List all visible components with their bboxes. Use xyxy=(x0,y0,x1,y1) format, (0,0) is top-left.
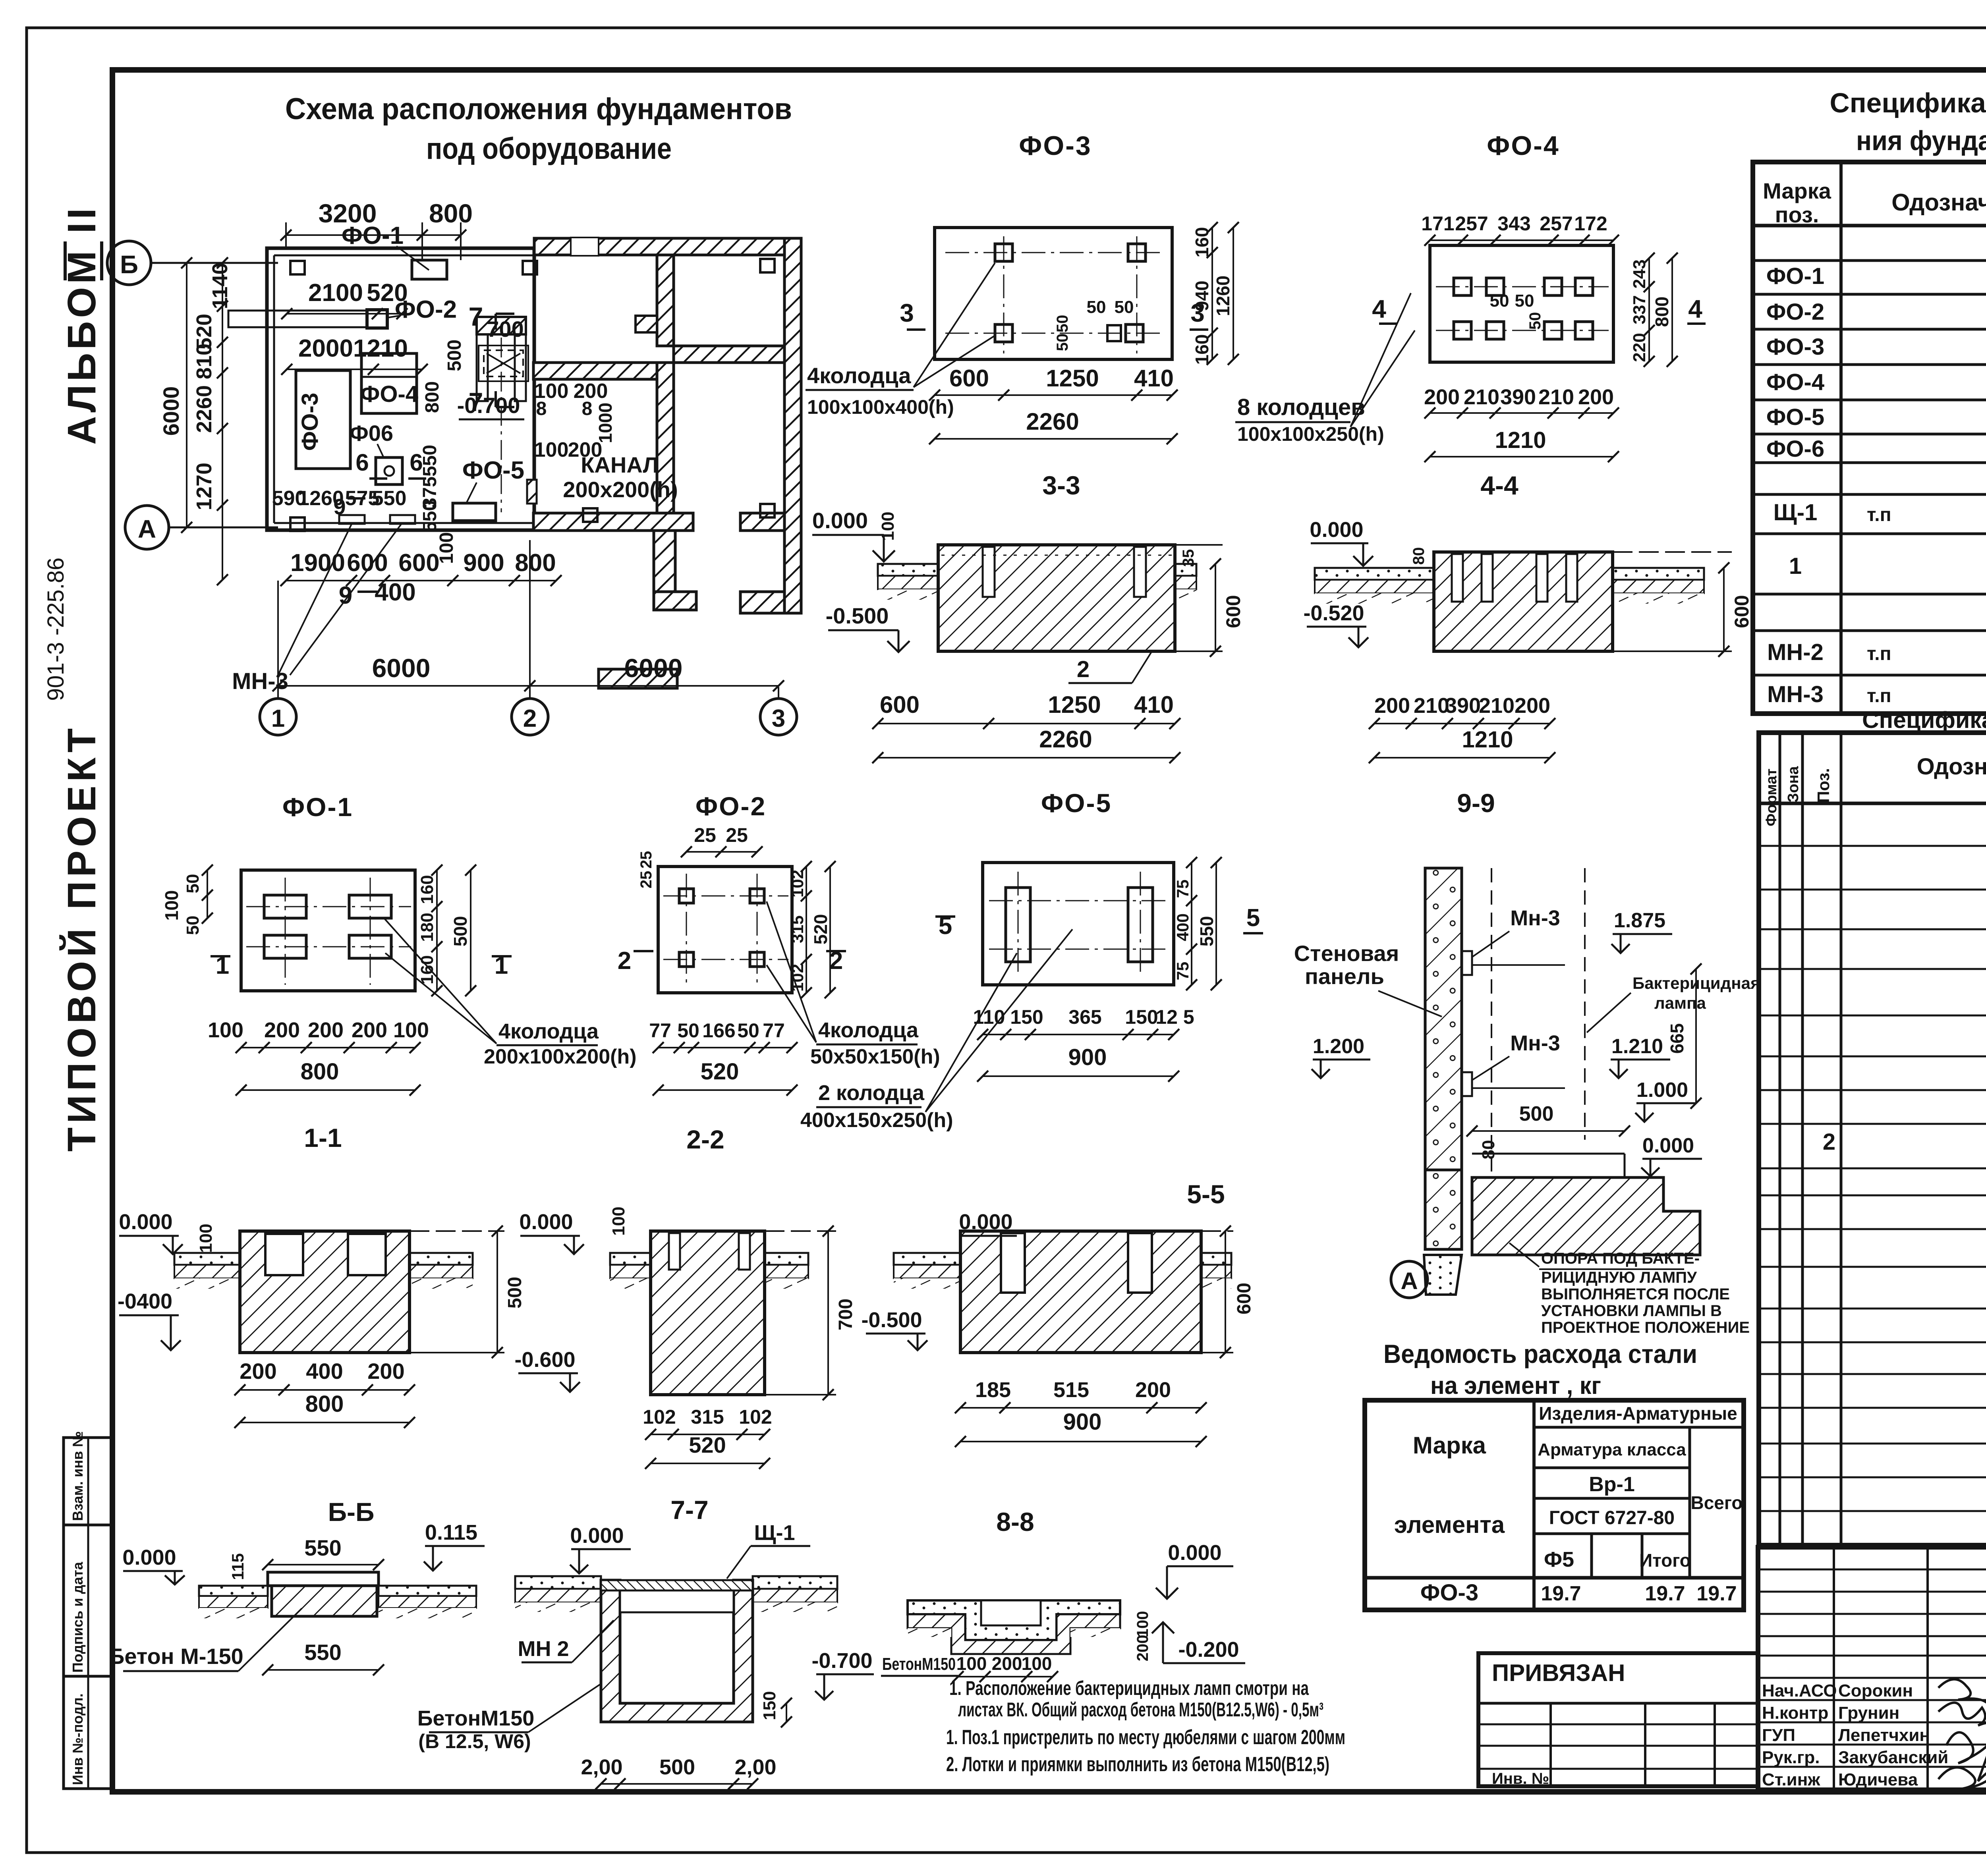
svg-text:под оборудование: под оборудование xyxy=(426,132,672,166)
table 1 row Щ-1 xyxy=(1773,494,1986,536)
section Б-Б dims xyxy=(262,1535,384,1675)
section 2-2 drawing xyxy=(610,1231,808,1395)
svg-text:50: 50 xyxy=(1526,312,1544,330)
svg-text:2260: 2260 xyxy=(192,385,216,433)
svg-text:100: 100 xyxy=(208,1018,243,1042)
foundation ФО-1 block xyxy=(342,222,447,279)
detail 9-9 lamp dashed lines xyxy=(1472,868,1585,1172)
svg-text:1210: 1210 xyxy=(1495,427,1546,453)
svg-text:400: 400 xyxy=(1173,913,1192,941)
svg-text:ФО-5: ФО-5 xyxy=(1041,788,1112,818)
svg-text:160: 160 xyxy=(1192,227,1212,258)
svg-text:550: 550 xyxy=(372,487,407,510)
plan hatched wall: vertical below row A with foot xyxy=(654,531,696,610)
svg-text:100: 100 xyxy=(956,1653,987,1674)
svg-text:600: 600 xyxy=(1731,595,1753,628)
table 1 row МН-2 xyxy=(1767,639,1986,665)
svg-text:19.7: 19.7 xyxy=(1645,1582,1685,1605)
svg-text:Схема расположения фундамент: Схема расположения фундаментов xyxy=(285,92,792,126)
svg-text:180: 180 xyxy=(417,913,437,942)
svg-text:210: 210 xyxy=(1538,385,1574,409)
svg-text:200х200(h): 200х200(h) xyxy=(563,477,678,502)
svg-text:Стеновая: Стеновая xyxy=(1294,941,1399,966)
svg-text:Юдичева: Юдичева xyxy=(1838,1770,1918,1789)
section Б-Б title xyxy=(328,1497,375,1527)
svg-text:6000: 6000 xyxy=(624,653,683,683)
detail ФО-5 bottom dims xyxy=(973,1006,1194,1082)
section 3-3 dims xyxy=(872,549,1244,763)
section 7-7 dims xyxy=(581,1755,776,1789)
svg-text:9: 9 xyxy=(339,582,352,609)
svg-text:410: 410 xyxy=(1134,691,1174,718)
plan corner column pads xyxy=(290,259,775,531)
plan left room walls (thin double line) xyxy=(267,248,534,530)
detail 9-9 labels МН-3 xyxy=(1472,906,1560,1080)
detail ФО-2 top dims 25/25 xyxy=(638,824,763,888)
section 5-5 title xyxy=(1187,1179,1225,1209)
svg-text:Лепетчхин: Лепетчхин xyxy=(1838,1725,1930,1745)
svg-text:8: 8 xyxy=(582,398,593,419)
title block frame xyxy=(1758,1547,1986,1790)
section 3-3 pos.2 label xyxy=(1068,651,1152,683)
svg-text:3-3: 3-3 xyxy=(1042,471,1080,500)
section 3-3 level -0.500 (left of section) xyxy=(826,603,910,652)
svg-text:50: 50 xyxy=(183,916,203,935)
svg-text:Вр-1: Вр-1 xyxy=(1589,1473,1635,1496)
svg-text:200: 200 xyxy=(367,1359,404,1384)
svg-text:Поз.: Поз. xyxy=(1814,768,1833,803)
svg-text:2260: 2260 xyxy=(1026,408,1079,435)
plan dimension chain 2000/1210 xyxy=(281,335,428,375)
svg-text:3: 3 xyxy=(772,705,785,732)
detail ФО-3 section mark 3 left xyxy=(900,299,1208,330)
detail ФО-2 section marks 2 xyxy=(618,947,846,975)
svg-text:100х100х250(h): 100х100х250(h) xyxy=(1237,423,1384,445)
svg-text:500: 500 xyxy=(504,1277,525,1309)
svg-text:3: 3 xyxy=(1190,299,1205,327)
plan top dimension chain 3200/800 xyxy=(280,199,473,260)
svg-text:520: 520 xyxy=(367,279,408,307)
specification table 1 (elements for foundation layout) xyxy=(1753,162,1986,714)
detail ФО-1 left dims xyxy=(161,865,213,935)
detail ФО-2 right dims xyxy=(788,861,836,998)
svg-text:400: 400 xyxy=(306,1359,343,1384)
svg-text:2: 2 xyxy=(1823,1129,1835,1155)
svg-text:Ст.инж: Ст.инж xyxy=(1762,1770,1820,1789)
svg-text:Щ-1: Щ-1 xyxy=(1773,500,1818,525)
section 2-2 dims xyxy=(643,1226,856,1469)
svg-text:115: 115 xyxy=(228,1553,247,1580)
svg-text:25: 25 xyxy=(638,851,655,869)
svg-text:1250: 1250 xyxy=(1046,365,1099,392)
svg-text:800: 800 xyxy=(1652,297,1672,327)
section 4-4 levels xyxy=(1303,518,1428,647)
svg-text:550: 550 xyxy=(1196,916,1217,947)
left margin vertical text: ТИПОВОЙ ПРОЕКТ xyxy=(59,724,104,1152)
svg-text:-0.500: -0.500 xyxy=(826,603,889,628)
section 5-5 drawing xyxy=(894,1231,1231,1353)
svg-text:800: 800 xyxy=(429,199,473,228)
svg-text:1: 1 xyxy=(1789,553,1802,579)
plan hatched wall: canal stub xyxy=(636,316,657,332)
svg-text:3200: 3200 xyxy=(319,199,377,228)
svg-text:ФО-6: ФО-6 xyxy=(1766,436,1824,462)
svg-text:ГУП: ГУП xyxy=(1762,1725,1795,1745)
section Б-Б drawing xyxy=(199,1572,476,1618)
МН-3 embedded plates on row А xyxy=(232,515,415,694)
table 1 row ФО-3 xyxy=(1766,334,1986,360)
section 3-3 title xyxy=(1042,471,1080,500)
section 7-7 title xyxy=(670,1495,708,1525)
svg-text:50х50х150(h): 50х50х150(h) xyxy=(810,1045,940,1068)
table 1 row ФО-1 xyxy=(1766,263,1986,289)
svg-text:2: 2 xyxy=(618,947,631,975)
svg-text:665: 665 xyxy=(1667,1023,1687,1054)
svg-text:Зона: Зона xyxy=(1785,766,1802,803)
svg-text:520: 520 xyxy=(689,1432,726,1457)
detail ФО-3 title xyxy=(1019,131,1092,161)
detail 9-9 node circle А xyxy=(1391,1261,1428,1298)
svg-text:1-1: 1-1 xyxy=(304,1123,342,1152)
svg-text:343: 343 xyxy=(1497,212,1530,235)
plan bottom dimension chain 1900/600/600/900/800 xyxy=(280,532,562,606)
svg-text:50: 50 xyxy=(1054,315,1071,333)
svg-text:500: 500 xyxy=(444,340,465,371)
svg-text:200: 200 xyxy=(264,1018,300,1042)
table 2 rows ФО-3 xyxy=(1823,1059,1986,1225)
svg-text:2,00: 2,00 xyxy=(581,1755,622,1779)
section 1-1 levels xyxy=(118,1210,216,1350)
svg-text:2,00: 2,00 xyxy=(734,1755,776,1779)
svg-text:Щ-1: Щ-1 xyxy=(754,1521,795,1545)
svg-text:(В 12.5, W6): (В 12.5, W6) xyxy=(418,1730,531,1752)
svg-text:А: А xyxy=(138,515,156,543)
svg-text:160: 160 xyxy=(1192,334,1212,365)
section 5-5 extension lines xyxy=(1201,1231,1233,1353)
detail ФО-1 plan xyxy=(241,870,415,991)
svg-text:19.7: 19.7 xyxy=(1696,1582,1737,1605)
svg-text:0.000: 0.000 xyxy=(959,1210,1012,1234)
section 7-7 drawing xyxy=(515,1576,837,1722)
svg-text:4колодца: 4колодца xyxy=(498,1019,599,1043)
svg-text:Инв. №: Инв. № xyxy=(1492,1770,1549,1787)
table 1 row ФО-2 xyxy=(1766,299,1986,325)
svg-text:9-9: 9-9 xyxy=(1457,788,1495,818)
svg-text:520: 520 xyxy=(701,1059,739,1085)
svg-text:25: 25 xyxy=(638,871,655,889)
detail ФО-2 title xyxy=(695,791,766,821)
svg-text:900: 900 xyxy=(1063,1409,1102,1435)
svg-text:ФО-3: ФО-3 xyxy=(297,393,323,451)
svg-text:2 колодца: 2 колодца xyxy=(818,1081,925,1105)
foundation ФО-3 block xyxy=(296,371,350,469)
svg-text:листах ВК. Общий расход бет: листах ВК. Общий расход бетона М150(В12.… xyxy=(958,1698,1323,1721)
detail ФО-3 right dims xyxy=(1192,222,1239,365)
svg-text:200: 200 xyxy=(352,1018,387,1042)
svg-text:Ф5: Ф5 xyxy=(1544,1548,1574,1571)
svg-text:102: 102 xyxy=(739,1406,772,1428)
svg-text:ФО-1: ФО-1 xyxy=(1766,263,1824,289)
detail ФО-4 plan xyxy=(1430,245,1613,362)
svg-text:200: 200 xyxy=(240,1359,276,1384)
svg-text:на элемент , кг: на элемент , кг xyxy=(1430,1372,1601,1399)
section 8-8 title xyxy=(996,1507,1034,1536)
svg-text:800: 800 xyxy=(301,1059,339,1085)
svg-text:ФО-4: ФО-4 xyxy=(1766,369,1824,395)
svg-text:ВЫПОЛНЯЕТСЯ ПОСЛЕ: ВЫПОЛНЯЕТСЯ ПОСЛЕ xyxy=(1541,1285,1730,1303)
plan section marks 6-6 xyxy=(355,449,426,479)
svg-text:ПРОЕКТНОЕ ПОЛОЖЕНИЕ: ПРОЕКТНОЕ ПОЛОЖЕНИЕ xyxy=(1541,1319,1750,1336)
svg-text:8: 8 xyxy=(536,398,547,419)
table 1 row ФО-6 xyxy=(1766,436,1986,462)
notes text xyxy=(946,1677,1345,1776)
detail ФО-2 bottom dims xyxy=(649,1019,798,1096)
svg-text:600: 600 xyxy=(398,549,439,577)
svg-text:9: 9 xyxy=(333,494,346,519)
svg-text:600: 600 xyxy=(949,365,989,392)
section 1-1 drawing xyxy=(174,1231,473,1353)
svg-text:0.115: 0.115 xyxy=(425,1521,477,1544)
plan pier on row A xyxy=(527,480,537,504)
svg-text:2: 2 xyxy=(523,705,537,732)
svg-text:100: 100 xyxy=(609,1206,628,1235)
detail ФО-4 title xyxy=(1487,131,1559,161)
plan section marks 9-9 xyxy=(333,494,377,609)
detail 9-9 note опора под лампу xyxy=(1509,1243,1750,1336)
svg-text:200х100х200(h): 200х100х200(h) xyxy=(484,1045,637,1068)
section 1-1 title xyxy=(304,1123,342,1152)
svg-text:600: 600 xyxy=(347,549,388,577)
svg-text:0.000: 0.000 xyxy=(1310,518,1363,542)
svg-text:901-3 -225.86: 901-3 -225.86 xyxy=(43,558,69,701)
svg-text:Грунин: Грунин xyxy=(1838,1703,1899,1723)
section 1-1 extension lines xyxy=(410,1231,504,1353)
svg-text:1.200: 1.200 xyxy=(1313,1035,1364,1058)
svg-text:410: 410 xyxy=(1134,365,1174,392)
svg-text:7: 7 xyxy=(469,387,483,417)
svg-text:75: 75 xyxy=(1173,880,1192,898)
svg-text:ОПОРА ПОД БАКТЕ-: ОПОРА ПОД БАКТЕ- xyxy=(1541,1250,1700,1267)
detail ФО-4 small 50 dims xyxy=(1490,291,1544,330)
svg-text:Итого: Итого xyxy=(1639,1550,1691,1571)
svg-text:Одозначение: Одозначение xyxy=(1891,189,1986,216)
specification table 1 title xyxy=(1830,87,1986,156)
svg-text:160: 160 xyxy=(417,875,437,904)
table 1 row МН-3 xyxy=(1767,681,1986,707)
svg-text:МН 2: МН 2 xyxy=(518,1637,569,1661)
svg-text:-0.200: -0.200 xyxy=(1178,1638,1239,1662)
plan local dims near canal xyxy=(422,317,616,461)
svg-text:т.п: т.п xyxy=(1867,504,1891,525)
svg-text:35: 35 xyxy=(1180,549,1197,567)
detail 9-9 levels and dims xyxy=(1312,909,1702,1176)
plan hatched wall: interior vertical upper xyxy=(657,255,674,513)
plan hatched wall: interior horizontal right xyxy=(674,346,784,363)
svg-text:АЛЬБОМ II: АЛЬБОМ II xyxy=(60,205,104,445)
svg-text:257: 257 xyxy=(1455,212,1488,235)
svg-text:Рук.гр.: Рук.гр. xyxy=(1762,1748,1820,1767)
svg-text:25: 25 xyxy=(726,824,748,846)
detail 9-9 wall panel xyxy=(1424,868,1472,1295)
detail ФО-3 plan xyxy=(935,228,1172,359)
detail ФО-1 section marks 1 xyxy=(211,952,512,979)
svg-text:Спецификация элементов к схе: Спецификация элементов к схеме расположе… xyxy=(1830,87,1986,118)
svg-text:-0.600: -0.600 xyxy=(514,1348,575,1372)
svg-text:100: 100 xyxy=(1022,1653,1052,1674)
svg-text:ФО-2: ФО-2 xyxy=(1766,299,1824,325)
svg-text:Формат: Формат xyxy=(1763,768,1780,826)
svg-text:Сорокин: Сорокин xyxy=(1838,1681,1913,1700)
svg-text:50: 50 xyxy=(1115,297,1134,317)
detail ФО-1 bottom dims xyxy=(208,1018,429,1096)
svg-text:0.000: 0.000 xyxy=(1168,1541,1221,1565)
svg-text:1.000: 1.000 xyxy=(1636,1079,1688,1102)
section 2-2 extension lines xyxy=(765,1231,836,1395)
svg-text:1900: 1900 xyxy=(290,549,345,577)
plan canal walls xyxy=(477,317,526,512)
svg-text:200: 200 xyxy=(1135,1378,1171,1402)
svg-text:-0.700: -0.700 xyxy=(457,393,520,418)
section 4-4 dims xyxy=(1369,562,1753,763)
svg-text:50: 50 xyxy=(737,1019,759,1042)
svg-text:лампа: лампа xyxy=(1654,994,1706,1012)
svg-text:Всего: Всего xyxy=(1690,1492,1743,1513)
svg-text:ФО-3: ФО-3 xyxy=(1420,1580,1478,1606)
svg-text:Ф06: Ф06 xyxy=(350,421,393,446)
label 4 колодца for ФО-3 detail xyxy=(806,263,995,418)
svg-text:2260: 2260 xyxy=(1039,726,1092,753)
svg-text:ФО-1: ФО-1 xyxy=(282,792,353,822)
svg-text:220: 220 xyxy=(1630,333,1649,362)
svg-text:Подпись и дата: Подпись и дата xyxy=(70,1561,86,1673)
svg-text:0.000: 0.000 xyxy=(1642,1134,1694,1157)
svg-text:-0.500: -0.500 xyxy=(861,1308,922,1332)
svg-text:4колодца: 4колодца xyxy=(807,363,911,388)
svg-text:1000: 1000 xyxy=(595,403,616,443)
svg-text:600: 600 xyxy=(1234,1283,1255,1314)
svg-text:7: 7 xyxy=(469,302,483,331)
main plan title xyxy=(285,92,792,166)
svg-text:515: 515 xyxy=(1053,1378,1089,1402)
svg-text:257: 257 xyxy=(1540,212,1573,235)
svg-text:337: 337 xyxy=(1630,295,1649,324)
section 1-1 dims xyxy=(234,1226,525,1428)
detail ФО-3 small 50/50 dims xyxy=(1054,297,1134,351)
detail ФО-5 title xyxy=(1041,788,1112,818)
svg-text:80: 80 xyxy=(1479,1140,1498,1160)
section 3-3 drawing xyxy=(878,545,1196,651)
svg-text:77: 77 xyxy=(763,1019,785,1042)
svg-text:150: 150 xyxy=(760,1691,779,1720)
svg-text:т.п: т.п xyxy=(1867,685,1891,706)
svg-text:1. Расположение бактерицидных: 1. Расположение бактерицидных ламп смотр… xyxy=(949,1677,1309,1699)
section 2-2 levels xyxy=(514,1206,628,1392)
section 7-7 бетон label xyxy=(417,1684,601,1752)
svg-text:185: 185 xyxy=(975,1378,1011,1402)
plan canal label xyxy=(563,452,678,502)
plan hatched wall: bottom center pad xyxy=(599,669,677,688)
section 7-7 levels and labels xyxy=(518,1521,874,1727)
svg-text:2000: 2000 xyxy=(298,335,353,362)
svg-text:3: 3 xyxy=(900,299,914,327)
plan section marks 7-7 xyxy=(469,302,514,417)
title block signatures xyxy=(1762,1679,1986,1789)
plan hatched wall: top band xyxy=(534,237,801,256)
svg-text:панель: панель xyxy=(1305,964,1384,989)
svg-text:Н.контр: Н.контр xyxy=(1762,1703,1828,1723)
svg-text:4: 4 xyxy=(1688,295,1702,323)
svg-text:171: 171 xyxy=(1421,212,1454,235)
svg-text:900: 900 xyxy=(1068,1044,1107,1070)
svg-text:1.210: 1.210 xyxy=(1611,1035,1663,1058)
svg-text:Марка: Марка xyxy=(1763,178,1831,203)
svg-text:75: 75 xyxy=(1173,962,1192,980)
svg-text:Одозначение: Одозначение xyxy=(1917,754,1986,780)
svg-text:ФО-4: ФО-4 xyxy=(360,381,418,407)
svg-text:т.п: т.п xyxy=(1867,643,1891,664)
plan bottom inner dims 590/1260/575/550 xyxy=(272,445,440,532)
section 4-4 title xyxy=(1480,471,1518,500)
svg-text:РИЦИДНУЮ ЛАМПУ: РИЦИДНУЮ ЛАМПУ xyxy=(1541,1269,1697,1286)
svg-text:365: 365 xyxy=(1068,1006,1101,1028)
svg-text:800: 800 xyxy=(305,1391,344,1417)
svg-text:900: 900 xyxy=(463,549,504,577)
svg-text:390: 390 xyxy=(1500,385,1536,409)
plan dimension chain 2100/520 xyxy=(281,279,408,319)
svg-text:Мн-3: Мн-3 xyxy=(1510,906,1560,930)
svg-text:550: 550 xyxy=(419,500,440,532)
detail ФО-1 right dims xyxy=(417,865,476,996)
svg-text:550: 550 xyxy=(304,1640,341,1665)
svg-text:102: 102 xyxy=(788,870,807,897)
table 1 row ФО-5 xyxy=(1766,404,1986,430)
plan axis circle Б xyxy=(107,241,278,285)
svg-text:Закубанский: Закубанский xyxy=(1838,1748,1948,1767)
svg-text:-0.520: -0.520 xyxy=(1303,601,1364,625)
svg-text:ПРИВЯЗАН: ПРИВЯЗАН xyxy=(1492,1660,1625,1686)
svg-text:-0.700: -0.700 xyxy=(811,1649,872,1673)
svg-text:ТИПОВОЙ ПРОЕКТ: ТИПОВОЙ ПРОЕКТ xyxy=(59,724,104,1152)
detail ФО-4 top dims xyxy=(1421,212,1619,246)
svg-text:810: 810 xyxy=(192,344,216,379)
svg-text:1: 1 xyxy=(271,705,285,732)
svg-text:Нач.АСО: Нач.АСО xyxy=(1762,1681,1837,1700)
svg-text:7-7: 7-7 xyxy=(670,1495,708,1525)
svg-text:800: 800 xyxy=(515,549,556,577)
svg-text:80: 80 xyxy=(1410,547,1428,565)
svg-text:400: 400 xyxy=(375,579,415,606)
svg-text:800: 800 xyxy=(422,381,443,413)
svg-text:19.7: 19.7 xyxy=(1541,1582,1581,1605)
svg-text:Инв №-подл.: Инв №-подл. xyxy=(70,1693,86,1785)
svg-text:100: 100 xyxy=(1134,1611,1151,1638)
svg-text:Бетон М-150: Бетон М-150 xyxy=(108,1644,243,1669)
svg-text:1250: 1250 xyxy=(1048,691,1101,718)
svg-text:1260: 1260 xyxy=(1213,276,1233,316)
section 5-5 dims xyxy=(955,1226,1255,1447)
svg-text:50: 50 xyxy=(1515,291,1534,311)
svg-text:ФО-3: ФО-3 xyxy=(1019,131,1092,161)
svg-text:элемента: элемента xyxy=(1394,1511,1505,1538)
svg-text:315: 315 xyxy=(788,915,807,943)
svg-text:Взам. инв №: Взам. инв № xyxy=(70,1431,86,1521)
detail ФО-5 section marks 5 xyxy=(935,904,1263,940)
svg-text:50: 50 xyxy=(1087,297,1106,317)
table 1 row 1 (Уголок) xyxy=(1789,546,1986,588)
binding (ПРИВЯЗАН) table xyxy=(1478,1653,1758,1787)
foundation ФО-5 block xyxy=(453,457,524,521)
svg-text:243: 243 xyxy=(1630,259,1649,288)
